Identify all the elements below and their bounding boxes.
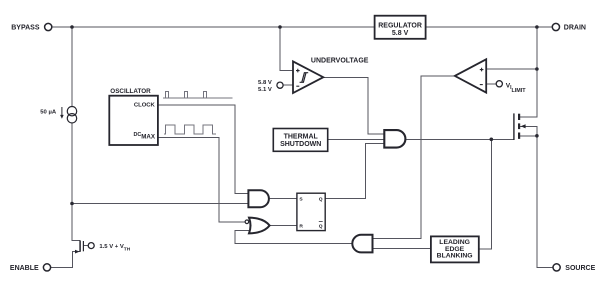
svg-text:Q: Q: [319, 196, 323, 202]
svg-text:BYPASS: BYPASS: [11, 25, 40, 32]
svg-text:5.8 V: 5.8 V: [392, 30, 409, 37]
svg-text:THERMAL: THERMAL: [284, 133, 319, 140]
svg-text:5.1 V: 5.1 V: [258, 87, 272, 93]
svg-text:REGULATOR: REGULATOR: [378, 22, 422, 29]
svg-text:CLOCK: CLOCK: [134, 102, 156, 108]
svg-text:BLANKING: BLANKING: [437, 252, 473, 259]
svg-text:ENABLE: ENABLE: [10, 265, 39, 272]
svg-text:OSCILLATOR: OSCILLATOR: [110, 88, 151, 95]
svg-text:5.8 V: 5.8 V: [258, 80, 272, 86]
svg-text:SHUTDOWN: SHUTDOWN: [280, 141, 321, 148]
svg-text:UNDERVOLTAGE: UNDERVOLTAGE: [311, 57, 369, 64]
svg-text:50 µA: 50 µA: [40, 110, 57, 116]
svg-text:Q: Q: [319, 224, 323, 230]
svg-text:SOURCE: SOURCE: [565, 265, 595, 272]
svg-text:R: R: [299, 224, 303, 230]
svg-text:DRAIN: DRAIN: [564, 25, 586, 32]
